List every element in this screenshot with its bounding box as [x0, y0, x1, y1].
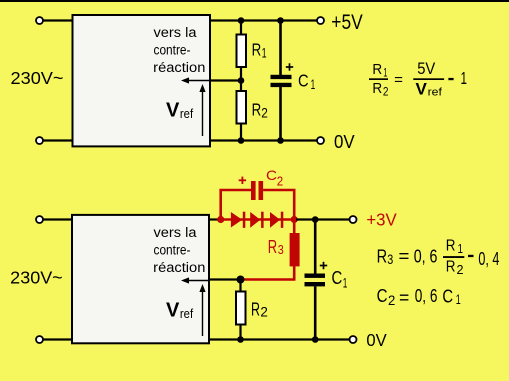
- svg-text:C: C: [298, 71, 309, 91]
- label Vref (bottom block): [166, 300, 193, 322]
- svg-text:=: =: [394, 71, 403, 88]
- wire feedback (top): [210, 79, 241, 81]
- wire 0V rail (bottom): [209, 338, 350, 340]
- svg-text:1: 1: [262, 45, 267, 61]
- svg-text:R: R: [252, 39, 262, 59]
- svg-text:=: =: [399, 286, 409, 307]
- svg-text:R: R: [446, 258, 456, 275]
- plus sign C2 (red): [239, 177, 246, 184]
- terminal +5V: [317, 17, 324, 24]
- svg-text:1: 1: [343, 274, 348, 290]
- node junction C1 bottom: [277, 137, 284, 144]
- svg-text:vers la: vers la: [154, 225, 197, 241]
- svg-text:ref: ref: [428, 87, 443, 99]
- node junction R2 bottom: [238, 137, 245, 144]
- svg-text:1: 1: [456, 291, 461, 307]
- svg-text:0V: 0V: [334, 132, 355, 153]
- wire C2 right lead (red): [263, 190, 294, 220]
- svg-text:C: C: [442, 285, 453, 306]
- arrow Vref (bottom block): [199, 284, 205, 336]
- svg-text:R: R: [372, 61, 382, 78]
- svg-text:C: C: [377, 285, 388, 306]
- svg-text:R: R: [268, 236, 277, 257]
- label R3 (red): [268, 236, 284, 257]
- svg-text:1: 1: [311, 76, 316, 92]
- svg-text:vers la: vers la: [154, 25, 197, 41]
- svg-text:1: 1: [461, 68, 468, 88]
- regulator block U1 (top): [73, 15, 211, 146]
- node junction R2 top (bottom circuit): [237, 276, 245, 284]
- node junction C1 bottom (bottom circuit): [312, 336, 319, 343]
- label R1: [252, 39, 267, 60]
- svg-text:+3V: +3V: [366, 210, 396, 230]
- formula R3 = 0,6 R1/R2 - 0,4: [377, 237, 500, 277]
- wire +3V rail (black): [296, 218, 350, 220]
- terminal 230V~ top-left: [36, 17, 43, 24]
- arrow feedback (top block): [181, 77, 209, 83]
- wire C2 left lead (red): [221, 190, 251, 220]
- svg-text:V: V: [166, 300, 180, 322]
- diode D2: [250, 212, 263, 228]
- svg-text:R: R: [446, 237, 456, 254]
- label vers la contre-réaction (bottom block): [153, 225, 205, 276]
- svg-text:R: R: [252, 99, 262, 119]
- wire diode chain (red): [221, 218, 295, 220]
- capacitor C1 (top): [271, 21, 292, 142]
- formula C2 = 0,6 C1: [377, 285, 461, 308]
- svg-text:2: 2: [383, 87, 389, 99]
- wire 0V rail (top): [210, 139, 317, 141]
- terminal +3V: [350, 216, 357, 223]
- resistor R1: [237, 21, 247, 82]
- svg-text:2: 2: [457, 262, 464, 277]
- label vers la contre-réaction (top block): [153, 25, 205, 76]
- capacitor C2 (red): [251, 181, 263, 200]
- arrow Vref (top block): [199, 84, 205, 136]
- svg-text:V: V: [166, 100, 180, 122]
- label R2 (top): [252, 99, 268, 120]
- wire box to diode anode (black): [209, 218, 220, 220]
- svg-text:2: 2: [260, 305, 268, 320]
- svg-text:V: V: [416, 79, 428, 98]
- svg-text:0, 6: 0, 6: [415, 285, 438, 306]
- svg-text:2: 2: [261, 104, 268, 120]
- plus sign C1 (bottom): [320, 262, 327, 269]
- resistor R2 (bottom): [236, 280, 246, 341]
- wire 230V bottom lead (bottom circuit): [43, 338, 72, 340]
- plus sign C1 (top): [286, 63, 293, 70]
- svg-text:3: 3: [387, 251, 393, 267]
- svg-text:2: 2: [388, 292, 395, 308]
- wire 230V top lead: [43, 19, 72, 21]
- label Vref (top block): [166, 100, 193, 122]
- svg-text:+5V: +5V: [331, 11, 362, 34]
- svg-text:=: =: [399, 245, 410, 266]
- resistor R3 (red): [241, 220, 300, 280]
- terminal 0V (top): [317, 137, 324, 144]
- label C1 (bottom): [332, 268, 348, 290]
- svg-text:0V: 0V: [366, 330, 387, 350]
- diode D1: [231, 212, 245, 228]
- svg-text:contre-: contre-: [154, 42, 191, 58]
- node junction R2 bottom (bottom circuit): [237, 336, 244, 343]
- label R2 (bottom): [251, 298, 268, 319]
- terminal 0V (bottom): [350, 336, 357, 343]
- regulator block U2 (bottom): [72, 215, 209, 343]
- svg-text:2: 2: [277, 174, 283, 189]
- label C1 (top): [298, 71, 315, 93]
- capacitor C1 (bottom): [305, 220, 326, 341]
- wire feedback (bottom): [209, 278, 241, 280]
- svg-text:R: R: [251, 298, 260, 319]
- node junction R1/R2: [238, 77, 245, 84]
- terminal 230V~ bottom-left (bottom circuit): [36, 336, 43, 343]
- svg-text:ref: ref: [180, 306, 194, 321]
- svg-text:C: C: [266, 167, 277, 183]
- wire 230V top lead (bottom circuit): [43, 218, 72, 220]
- svg-text:230V~: 230V~: [10, 267, 62, 287]
- svg-text:1: 1: [458, 241, 464, 256]
- terminal 230V~ top-left (bottom circuit): [36, 216, 43, 223]
- label C2 (red): [266, 167, 283, 189]
- node junction C1 top (bottom circuit): [312, 216, 319, 223]
- resistor R2 (top): [237, 81, 247, 142]
- svg-text:C: C: [332, 268, 343, 288]
- svg-text:ref: ref: [180, 106, 194, 121]
- svg-text:230V~: 230V~: [11, 68, 64, 88]
- svg-text:réaction: réaction: [153, 60, 205, 76]
- svg-text:R: R: [377, 245, 388, 266]
- node junction diode anode (red): [217, 216, 224, 223]
- node junction R1 top: [238, 17, 245, 24]
- svg-text:réaction: réaction: [153, 260, 205, 276]
- terminal 230V~ bottom-left: [36, 137, 43, 144]
- arrow feedback (bottom block): [181, 277, 209, 283]
- svg-text:0, 4: 0, 4: [478, 248, 499, 269]
- diode D3: [270, 212, 283, 228]
- svg-text:3: 3: [278, 242, 284, 257]
- node junction C1 top: [277, 17, 284, 24]
- wire +5V rail: [210, 19, 317, 21]
- formula R1/R2 = 5V/Vref - 1: [369, 60, 467, 99]
- svg-text:1: 1: [383, 68, 387, 80]
- svg-text:5V: 5V: [417, 60, 435, 78]
- svg-text:0, 6: 0, 6: [414, 246, 438, 267]
- node junction diode cathode / R3 top (red): [291, 216, 298, 223]
- svg-text:R: R: [372, 80, 382, 97]
- wire 230V bottom lead: [43, 139, 72, 141]
- svg-text:contre-: contre-: [154, 242, 191, 258]
